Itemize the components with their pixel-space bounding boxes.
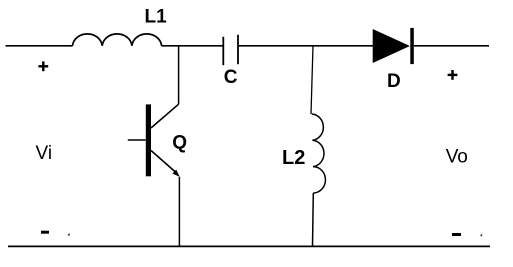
tick mark right: [480, 234, 482, 238]
wire emitter to bottom rail: [178, 177, 180, 247]
svg-text:Vi: Vi: [36, 143, 53, 164]
svg-text:Vo: Vo: [446, 147, 468, 168]
capacitor C left plate: [222, 37, 224, 65]
transistor Q collector lead: [151, 104, 179, 128]
minus sign output: [452, 233, 461, 236]
node collector junction: [178, 46, 180, 104]
diode D cathode bar: [410, 28, 414, 64]
svg-text:L1: L1: [145, 6, 168, 27]
minus sign input: [41, 231, 49, 234]
svg-text:Q: Q: [172, 133, 187, 154]
node L2 junction wire: [311, 46, 313, 114]
transistor Q base bar: [146, 104, 151, 176]
transistor Q emitter arrowhead: [172, 170, 179, 177]
wire bottom rail: [8, 245, 490, 247]
tick mark left: [67, 233, 70, 237]
inductor L1: [73, 34, 162, 46]
svg-text:D: D: [387, 71, 401, 92]
inductor L2: [312, 114, 326, 193]
wire top-left input segment: [6, 45, 73, 47]
svg-text:L2: L2: [282, 147, 305, 169]
wire L1 to capacitor C: [162, 45, 223, 47]
transistor Q base lead: [128, 139, 146, 141]
wire diode to output: [414, 45, 489, 47]
transistor Q emitter lead: [151, 151, 176, 173]
diode D triangle: [373, 30, 409, 62]
capacitor C right plate: [237, 35, 239, 64]
svg-text:C: C: [224, 67, 238, 88]
wire L2 to bottom rail: [312, 193, 315, 246]
wire capacitor to diode: [238, 45, 373, 47]
plus sign input: [38, 61, 48, 71]
plus sign output: [448, 70, 458, 80]
